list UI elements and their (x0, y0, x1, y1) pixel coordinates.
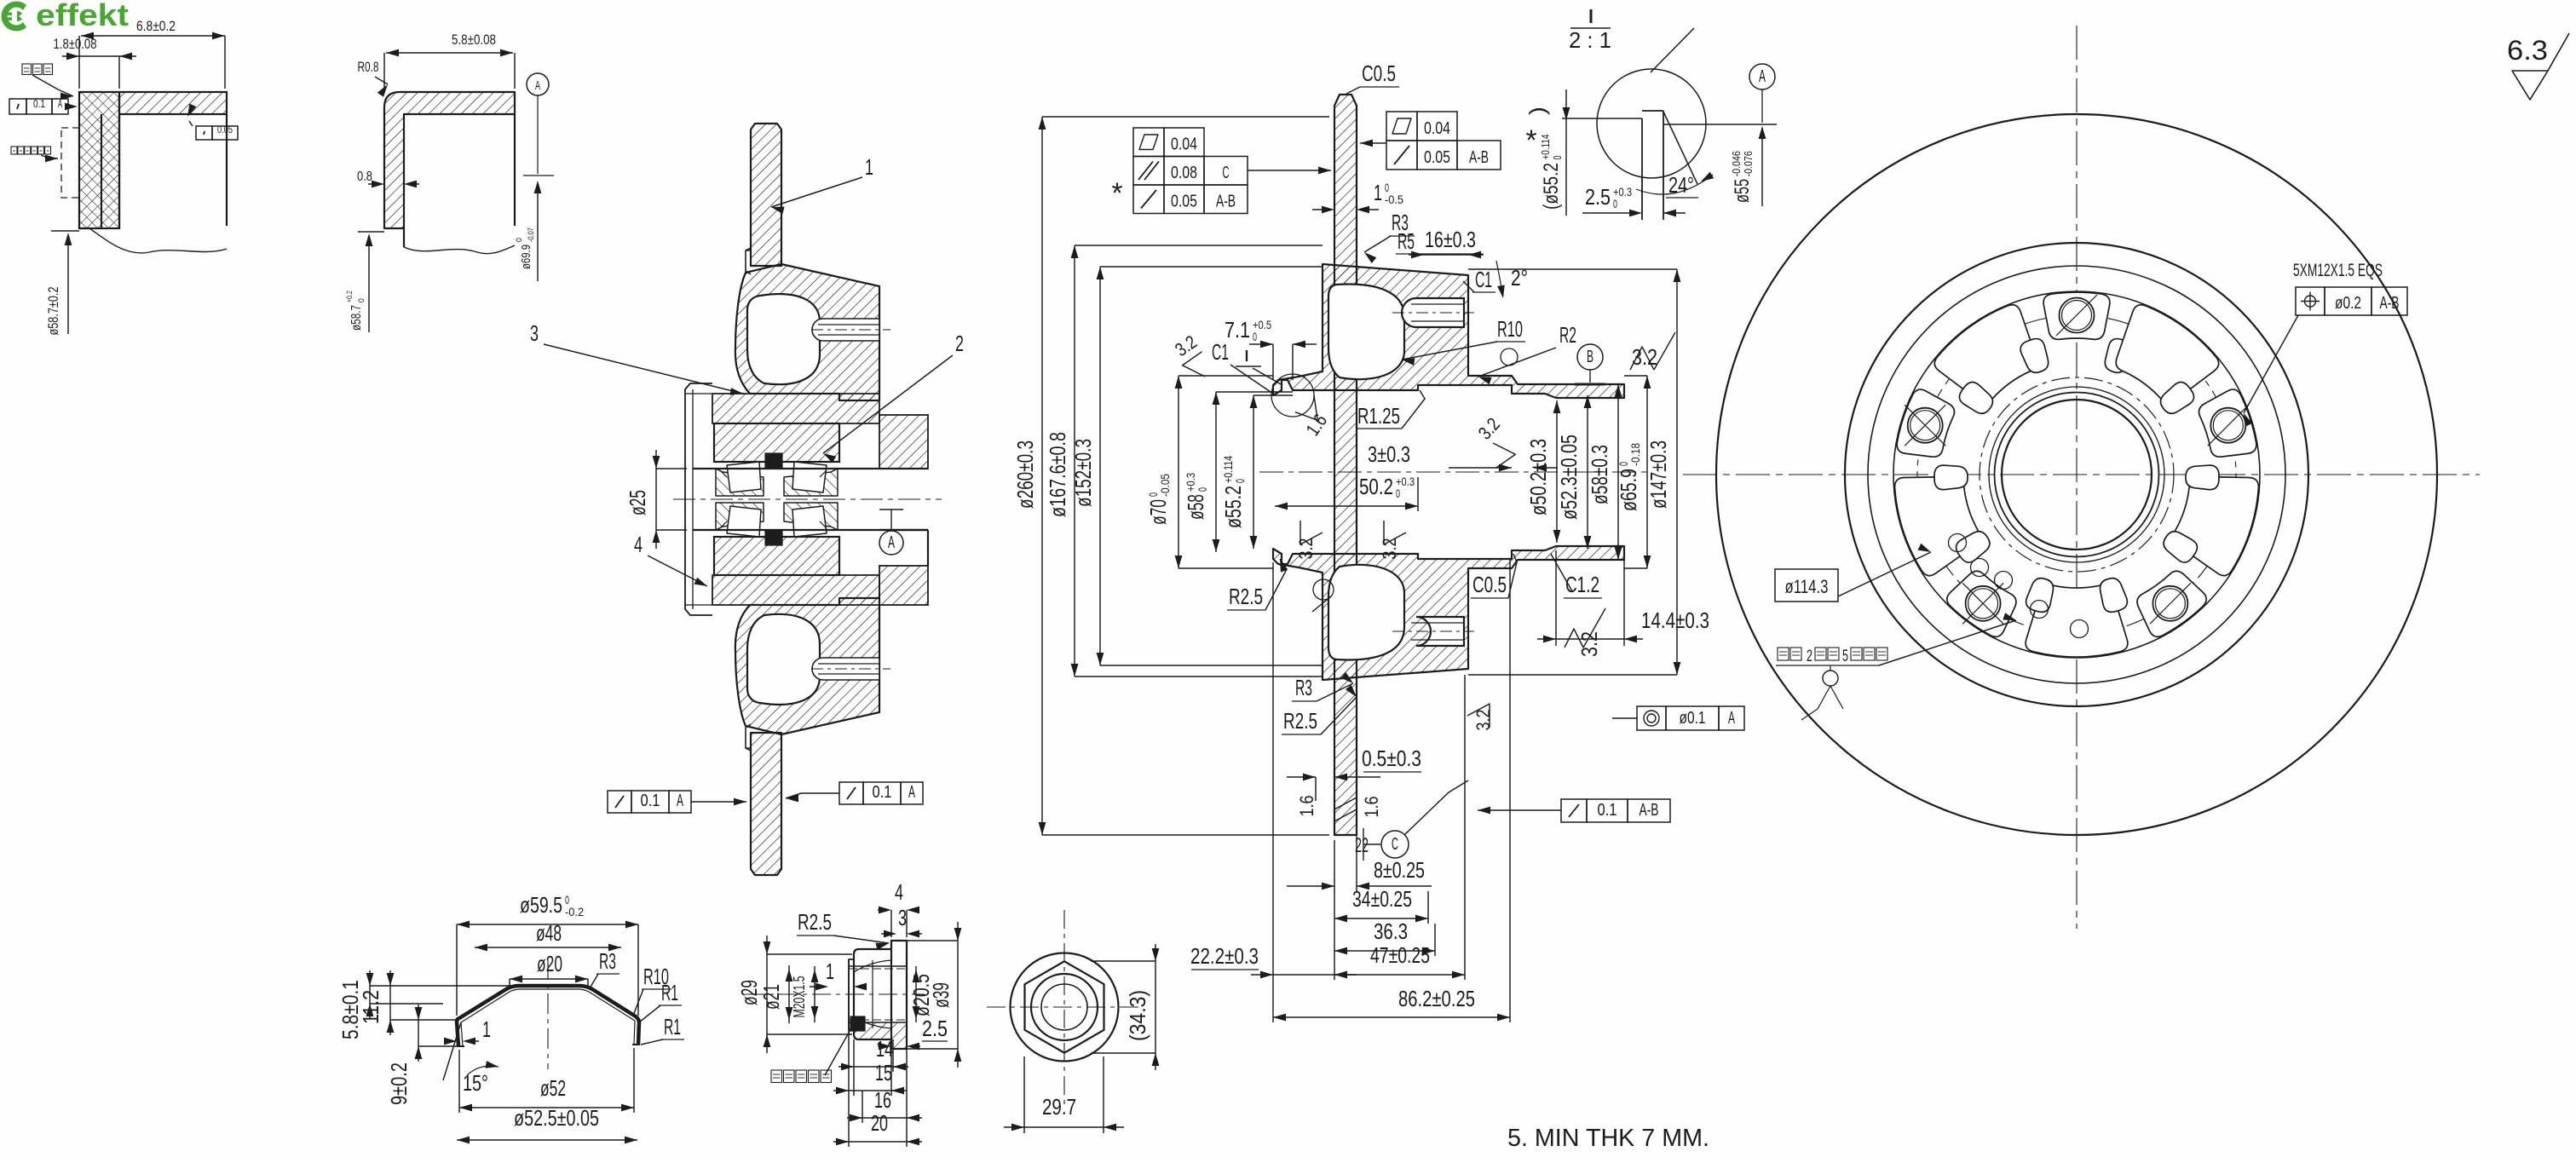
hub section: stud hole slot top (812, 319, 879, 341)
svg-text:ø167.6±0.8: ø167.6±0.8 (1045, 432, 1070, 517)
nut section: flange (891, 941, 907, 1049)
dim ø58+0.3 (1183, 473, 1209, 520)
svg-text:ø59.5: ø59.5 (520, 892, 562, 918)
svg-text:0: 0 (1253, 330, 1257, 343)
svg-text:R2: R2 (1559, 322, 1576, 348)
disc front: small window pair 0 (2020, 339, 2049, 373)
svg-text:2.5: 2.5 (922, 1016, 948, 1041)
disc front: big window 2 (2026, 585, 2128, 657)
svg-text:86.2±0.25: 86.2±0.25 (1398, 986, 1475, 1011)
svg-text:+0.114: +0.114 (1539, 135, 1552, 160)
gdt 0.1 A left bottom (608, 791, 631, 813)
svg-text:A: A (677, 792, 683, 810)
svg-text:ø260±0.3: ø260±0.3 (1012, 440, 1038, 509)
svg-text:5.8±0.08: 5.8±0.08 (452, 32, 496, 48)
svg-text:-0.05: -0.05 (1158, 474, 1172, 497)
svg-text:2°: 2° (1511, 265, 1528, 291)
svg-text:R3: R3 (1295, 675, 1312, 700)
dim ø65.9 (1616, 443, 1642, 511)
svg-text:9±0.2: 9±0.2 (386, 1062, 412, 1105)
svg-text:0: 0 (357, 298, 366, 302)
disc front: hole pocket 4 (2199, 389, 2256, 457)
disc front: small window pair 4 (2161, 382, 2194, 413)
dim ø70 (1145, 474, 1172, 525)
disc front: hole pocket 0 (2043, 292, 2110, 339)
svg-text:A-B: A-B (1216, 193, 1236, 211)
disc front: bolt hole 4 (2210, 408, 2245, 443)
svg-text:A-B: A-B (1640, 801, 1659, 820)
svg-text:1: 1 (482, 1016, 491, 1042)
hub section: disc blade bottom (751, 733, 781, 875)
disc front: bolt hole 0 (2060, 298, 2095, 333)
svg-text:0: 0 (1233, 479, 1247, 483)
hub section: roller row top (727, 462, 761, 492)
svg-text:0.5±0.3: 0.5±0.3 (1362, 746, 1421, 771)
label ø114.3 box (1775, 569, 1838, 602)
svg-text:14: 14 (876, 1036, 893, 1062)
svg-text:R2.5: R2.5 (1229, 584, 1263, 609)
main section: hub body bottom half (1273, 546, 1624, 680)
svg-text:C1: C1 (1475, 267, 1492, 292)
svg-text:I: I (1588, 5, 1595, 27)
small marker circle lower (1313, 579, 1334, 600)
svg-text:ø58.7±0.2: ø58.7±0.2 (46, 287, 61, 336)
datum A detail2 (527, 73, 549, 95)
svg-text:ø25: ø25 (625, 490, 650, 515)
disc front: big window 0 (1934, 305, 2037, 403)
svg-text:0.8: 0.8 (357, 170, 372, 184)
svg-text:3: 3 (898, 905, 907, 930)
disc front: outer circle (1716, 114, 2437, 835)
main section: centerline (1259, 471, 1649, 473)
svg-text:*: * (1526, 124, 1537, 157)
svg-text:A: A (1728, 709, 1735, 728)
svg-text:A-B: A-B (2380, 294, 2400, 313)
svg-text:0.05: 0.05 (1424, 148, 1450, 167)
svg-text:15°: 15° (463, 1070, 488, 1096)
detail I dim ø55 (1730, 151, 1755, 203)
svg-text:ø48: ø48 (536, 920, 562, 946)
svg-text:1.6: 1.6 (1296, 796, 1317, 817)
roughness 3.2 left (1183, 352, 1215, 383)
disc front: big window 4 (2116, 305, 2218, 403)
svg-text:R10: R10 (1497, 316, 1523, 342)
nut front: hexagon (1025, 961, 1104, 1052)
disc front: big window 3 (2173, 476, 2259, 575)
gdt position box M12 (2296, 287, 2325, 315)
svg-text:5XM12X1.5 EQS: 5XM12X1.5 EQS (2293, 261, 2383, 280)
disc front: friction inner circle (1845, 243, 2308, 706)
svg-text:M20X1.5: M20X1.5 (791, 976, 808, 1018)
svg-text:A: A (535, 78, 540, 93)
svg-text:R1: R1 (664, 1014, 681, 1039)
hub section: inner ring bottom (716, 503, 764, 530)
svg-text:6.3: 6.3 (2507, 35, 2548, 66)
detail I dim ø55.2 (1539, 135, 1564, 210)
disc front: hole pocket 2 (1947, 571, 2016, 636)
svg-text:6.8±0.2: 6.8±0.2 (136, 18, 176, 34)
nut section: bore lines (849, 965, 907, 967)
disc front: balance drill circles (1949, 534, 1967, 552)
disc front: bolt circle dashed (1917, 315, 2236, 634)
svg-text:0.1: 0.1 (33, 98, 45, 110)
hub section: hat & flange top (735, 264, 879, 400)
roughness 3.2 top right (1630, 332, 1675, 370)
svg-text:14.4±0.3: 14.4±0.3 (1641, 607, 1709, 633)
gdt 0.05 box detail1 (196, 126, 212, 140)
svg-text:5: 5 (1842, 648, 1848, 665)
svg-text:2: 2 (1807, 648, 1812, 665)
svg-text:2: 2 (955, 331, 964, 356)
svg-text:+0.2: +0.2 (345, 291, 354, 302)
svg-text:36.3: 36.3 (1374, 918, 1408, 944)
hub section: bore lines (693, 468, 928, 469)
disc front: hat ring circle (1868, 266, 2285, 683)
main section: disc blade (1334, 95, 1357, 835)
svg-text:effekt: effekt (36, 0, 129, 32)
hub section: hat void pocket top (747, 294, 820, 384)
hub section: stud hole slot bottom (812, 658, 879, 680)
svg-text:ø0.1: ø0.1 (1680, 709, 1706, 728)
svg-text:(34.3): (34.3) (1125, 990, 1150, 1041)
disc front: centerlines (1683, 474, 2480, 475)
svg-text:0: 0 (1551, 156, 1564, 160)
disc front: bolt hole 2 (1966, 586, 2001, 621)
gdt 0.1 A box detail1 (9, 99, 26, 114)
datum C (1363, 828, 1364, 861)
svg-text:ø0.2: ø0.2 (2335, 294, 2361, 313)
label cixingjiao (magnetic adhesive) (22, 64, 32, 75)
disc front: spigot dashed circle (1980, 377, 2174, 572)
svg-text:C: C (1392, 835, 1398, 854)
nut section: axis (746, 993, 925, 995)
gdt box top-left 3 rows (1133, 128, 1164, 157)
svg-text:3.2: 3.2 (1295, 538, 1317, 560)
svg-text:3±0.3: 3±0.3 (1368, 441, 1410, 467)
svg-text:ø65.9: ø65.9 (1616, 469, 1641, 511)
detail I groove column (1641, 118, 1643, 220)
main section: detail I circle (1271, 374, 1314, 417)
label per-group note (1778, 648, 1789, 660)
dim ø58.7+0.2 detail2 (345, 291, 366, 331)
svg-text:ø52.5±0.05: ø52.5±0.05 (514, 1105, 599, 1131)
svg-text:ø114.3: ø114.3 (1785, 576, 1829, 597)
svg-text:0.05: 0.05 (217, 125, 233, 135)
disc front: small window pair 2 (2026, 579, 2054, 613)
roughness 3.2 tall lower (1565, 608, 1605, 648)
svg-text:A-B: A-B (1469, 148, 1489, 167)
svg-text:3: 3 (530, 320, 539, 346)
svg-text:R0.8: R0.8 (358, 60, 379, 75)
svg-text:ø58±0.3: ø58±0.3 (1587, 445, 1612, 504)
svg-text:ø55: ø55 (1731, 179, 1754, 203)
svg-text:ø58.7: ø58.7 (349, 305, 364, 331)
nut front: outer circle (1011, 953, 1119, 1062)
svg-text:16±0.3: 16±0.3 (1425, 227, 1476, 252)
hub section: seal cap left (685, 383, 712, 615)
main section: hub body top half (1273, 264, 1624, 398)
nominal reading zone dashed box (61, 128, 79, 198)
svg-text:ø152±0.3: ø152±0.3 (1070, 439, 1096, 507)
hub section: roller row bottom (727, 506, 761, 537)
roughness 1.6 bottom pair (1334, 797, 1357, 821)
disc front: bolt hole 1 (1908, 408, 1943, 443)
svg-text:C1.2: C1.2 (1565, 572, 1599, 597)
svg-text:(ø55.2: (ø55.2 (1540, 163, 1563, 210)
hub section: blade left step (746, 248, 751, 274)
svg-text:R1.25: R1.25 (1357, 403, 1400, 429)
main section: hat void bottom (1328, 565, 1404, 660)
svg-text:0: 0 (515, 238, 523, 242)
svg-text:22.2±0.3: 22.2±0.3 (1190, 943, 1259, 969)
svg-text:47±0.25: 47±0.25 (1370, 942, 1430, 968)
hub section: barrel band top (712, 394, 879, 423)
svg-text:15: 15 (875, 1060, 892, 1085)
svg-text:R2.5: R2.5 (798, 909, 832, 935)
hub section: inboard nose top wall (879, 415, 928, 469)
svg-text:A: A (888, 533, 895, 552)
svg-text:1.6: 1.6 (1361, 797, 1382, 818)
svg-text:11.2: 11.2 (358, 990, 383, 1024)
svg-text:3.2: 3.2 (1379, 538, 1400, 560)
gdt concentricity box (1637, 706, 1666, 730)
svg-text:1: 1 (826, 959, 834, 984)
svg-text:0.1: 0.1 (1598, 801, 1617, 820)
svg-text:2.5: 2.5 (1585, 184, 1611, 210)
disc front: window band outer edge (1893, 291, 2260, 658)
nut section: black insert (850, 1016, 865, 1031)
gdt 0.1 A right bottom (839, 782, 863, 804)
svg-text:C1: C1 (1212, 339, 1229, 365)
svg-text:3.2: 3.2 (1576, 631, 1602, 657)
svg-text:34±0.25: 34±0.25 (1352, 886, 1412, 912)
svg-text:ø50.2±0.3: ø50.2±0.3 (1525, 439, 1551, 515)
svg-text:0: 0 (1613, 197, 1617, 210)
svg-text:0: 0 (1196, 487, 1209, 492)
dim ø69.9 detail2 (515, 227, 535, 269)
svg-text:29.7: 29.7 (1042, 1094, 1076, 1120)
disc front: center bore circles (2002, 400, 2152, 550)
svg-text:3.2: 3.2 (1472, 710, 1494, 731)
svg-text:3.2: 3.2 (1632, 344, 1657, 370)
disc front: hole pocket 3 (2137, 571, 2206, 636)
svg-text:R1: R1 (661, 980, 678, 1005)
svg-text:R2.5: R2.5 (1283, 708, 1317, 734)
gdt 0.1 A-B box (1561, 799, 1587, 822)
svg-text:-0.076: -0.076 (1742, 151, 1755, 176)
hub section: barrel band bottom (712, 575, 879, 605)
balloon circle bottom left (1830, 665, 1831, 671)
svg-text:0.05: 0.05 (1171, 193, 1197, 211)
svg-text:0.1: 0.1 (873, 783, 892, 802)
svg-text:8±0.25: 8±0.25 (1374, 857, 1425, 883)
svg-text:20: 20 (871, 1110, 888, 1136)
disc front: hole pocket 1 (1897, 389, 1954, 457)
hub section: axis centerline (673, 498, 942, 500)
hub section: inner ring top (716, 469, 764, 496)
datum A top (1749, 64, 1775, 89)
svg-text:1: 1 (865, 154, 873, 180)
svg-text:ø52.3±0.05: ø52.3±0.05 (1556, 435, 1582, 520)
svg-text:4: 4 (634, 532, 643, 557)
main section: stud hole bottom (1416, 617, 1464, 646)
svg-text:1.8±0.08: 1.8±0.08 (54, 37, 97, 52)
svg-text:C0.5: C0.5 (1362, 60, 1396, 86)
dim ø55.2+0.114 (1220, 456, 1247, 528)
datum A hub view (890, 510, 892, 531)
cap section: centerline (547, 959, 549, 1069)
hub section: bearing outer ring top (714, 423, 839, 462)
hub section: seal black bottom (765, 530, 782, 545)
svg-text:1: 1 (1374, 180, 1382, 205)
svg-text:16: 16 (874, 1087, 891, 1113)
svg-text:4: 4 (895, 879, 903, 905)
svg-text:ø20: ø20 (537, 951, 562, 976)
svg-text:ø55.2: ø55.2 (1220, 486, 1246, 528)
roughness circle small (1501, 348, 1518, 366)
svg-text:5. MIN THK 7 MM.: 5. MIN THK 7 MM. (1507, 1125, 1709, 1152)
hub section: hat & flange bottom (735, 598, 879, 734)
main section: stud hole top (1402, 298, 1464, 327)
svg-text:A: A (58, 98, 62, 110)
svg-text:-0.5: -0.5 (1385, 193, 1403, 206)
roughness 1.6 mid (1295, 391, 1325, 420)
svg-text:-0.046: -0.046 (1730, 151, 1743, 176)
svg-text:C: C (1223, 164, 1230, 182)
svg-text:-0.18: -0.18 (1628, 443, 1642, 466)
nut section: washer lip (849, 959, 854, 1029)
svg-text:A: A (1759, 67, 1766, 86)
nut front: inner circles (1031, 974, 1098, 1040)
svg-text:ø21: ø21 (758, 984, 784, 1010)
svg-text:0.08: 0.08 (1171, 164, 1197, 182)
label non-metal insert (771, 1070, 782, 1083)
svg-text:R5: R5 (1397, 228, 1415, 254)
roughness 3.2 lower right (1467, 704, 1490, 728)
seal detail 1 body (79, 92, 119, 228)
datum B (1577, 344, 1603, 370)
svg-text:0: 0 (1396, 487, 1400, 500)
disc front: bolt hole 3 (2152, 586, 2187, 621)
detail I surface lines (1562, 118, 1642, 119)
svg-text:ø70: ø70 (1145, 499, 1171, 525)
svg-text:ø69.9: ø69.9 (519, 245, 533, 269)
hub section: bearing outer ring bottom (714, 537, 839, 575)
hub section: inboard nose bottom wall (879, 566, 928, 605)
disc front: big window 1 (1895, 476, 1981, 575)
gdt box top-right 2 rows (1386, 112, 1417, 141)
svg-text:*: * (1112, 177, 1123, 210)
svg-text:): ) (1524, 107, 1550, 115)
cap section: profile (457, 986, 639, 1046)
roughness 3.2 ø58 outer (1484, 436, 1516, 468)
svg-text:-0.07: -0.07 (527, 227, 535, 242)
nut front: centerlines (987, 1006, 1142, 1008)
svg-text:A: A (908, 783, 915, 802)
seal detail 1 break line (89, 228, 227, 253)
effekt logo icon (2, 1, 27, 31)
svg-text:R3: R3 (599, 948, 616, 974)
svg-text:ø147±0.3: ø147±0.3 (1645, 440, 1671, 509)
disc front: small window pair 1 (1934, 465, 1968, 489)
svg-text:0.04: 0.04 (1171, 135, 1197, 154)
main section: hat void top (1328, 285, 1404, 380)
roughness 3.2 bore pair (1300, 521, 1323, 544)
detail I circle (1597, 69, 1706, 178)
svg-text:0.04: 0.04 (1424, 119, 1450, 138)
seal detail 2 body (384, 92, 515, 228)
svg-text:2 : 1: 2 : 1 (1569, 27, 1611, 53)
svg-text:I: I (1244, 348, 1250, 365)
nut section: hatch lower (854, 1022, 907, 1049)
svg-text:0.1: 0.1 (641, 792, 660, 810)
seal detail 2 break line (404, 245, 515, 254)
svg-text:B: B (1587, 348, 1593, 366)
nut section: hex body (854, 949, 891, 1039)
hub section: disc blade top (751, 124, 781, 266)
svg-text:50.2: 50.2 (1359, 474, 1393, 499)
svg-text:ø39: ø39 (928, 982, 954, 1008)
detail I chamfer diagonals (1663, 112, 1697, 184)
svg-text:ø58: ø58 (1183, 494, 1208, 520)
svg-text:ø52: ø52 (540, 1075, 566, 1101)
svg-text:C0.5: C0.5 (1472, 572, 1507, 597)
svg-text:-0.2: -0.2 (565, 905, 584, 918)
disc front: small window pair 3 (2164, 532, 2197, 562)
hub section: seal black top (765, 453, 782, 469)
